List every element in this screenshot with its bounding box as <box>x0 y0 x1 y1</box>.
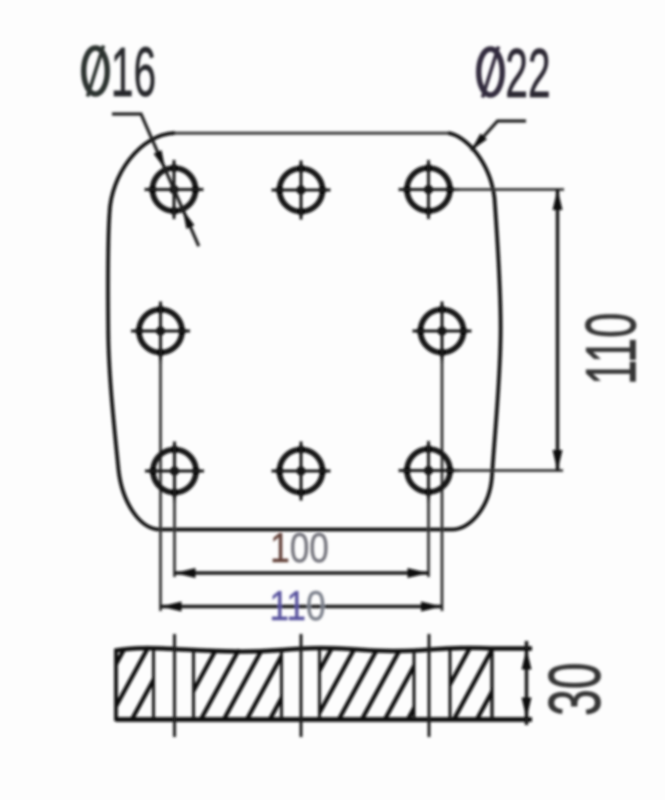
section outline <box>116 648 533 652</box>
section right edge <box>490 649 493 720</box>
hole wall 1L <box>152 650 155 719</box>
plate outline sides <box>108 133 501 530</box>
hole r1c1 <box>145 160 204 219</box>
plate outline <box>171 132 450 135</box>
ext line r1c3 to right dim <box>455 188 564 191</box>
dim line 110 bottom <box>161 605 443 609</box>
arrow right110 top <box>553 189 563 210</box>
hole r3c2 <box>272 442 331 501</box>
hole wall 3L <box>413 650 416 719</box>
hole wall 3R <box>449 650 452 719</box>
centerline sec3 <box>428 634 431 737</box>
leader O22 <box>471 121 526 151</box>
arrow 110b right <box>421 602 442 612</box>
centerline sec1 <box>173 634 176 737</box>
svg-text:22: 22 <box>505 35 550 113</box>
svg-text:110: 110 <box>571 313 651 385</box>
ext line r2c3 to bottom 110 dim <box>441 360 444 611</box>
svg-text:100: 100 <box>270 525 329 572</box>
section left edge <box>114 649 118 722</box>
hole r1c3 <box>399 160 460 219</box>
hole r1c2 <box>272 161 331 220</box>
ext line r3c3 to right dim <box>455 469 563 472</box>
svg-text:16: 16 <box>111 34 156 112</box>
svg-text:110: 110 <box>269 583 325 630</box>
ext line r3c1 to 100 dim <box>173 499 176 577</box>
hole r3c3 <box>399 441 460 502</box>
arrow 100 left <box>175 568 196 578</box>
leader O16 <box>112 114 199 246</box>
hole wall 2R <box>318 650 321 719</box>
dim line right 110 <box>556 189 560 471</box>
hole wall 1R <box>192 650 195 719</box>
arrow 110b left <box>161 602 182 612</box>
centerline sec2 <box>300 634 303 737</box>
hole wall 2L <box>280 650 283 719</box>
hatching <box>85 649 515 721</box>
ext line r3c3 to 100 dim <box>427 499 430 577</box>
arrow 30 top <box>522 649 532 670</box>
hole r2c1 <box>131 302 190 364</box>
label O16 <box>84 34 156 112</box>
arrow O22 <box>471 134 487 151</box>
arrow right110 bottom <box>553 450 563 471</box>
arrow O16 upper <box>154 150 166 169</box>
ext line r2c1 to bottom 110 dim <box>159 360 162 611</box>
hole r3c1 <box>145 442 204 503</box>
section bottom edge <box>116 717 533 722</box>
dim line 100 <box>175 571 429 575</box>
arrow 30 bottom <box>522 698 532 719</box>
arrow O16 lower <box>183 210 195 229</box>
arrow 100 right <box>408 568 429 578</box>
dim line 30 <box>525 641 529 725</box>
hole r2c3 <box>413 302 472 364</box>
svg-text:30: 30 <box>535 662 616 716</box>
label O22 <box>479 35 551 113</box>
